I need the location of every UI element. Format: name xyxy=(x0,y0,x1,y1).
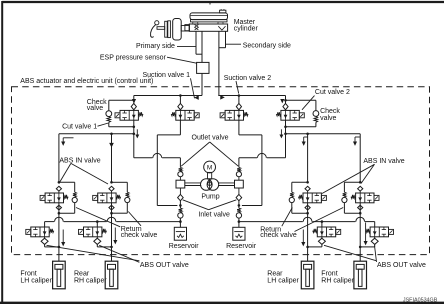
svg-text:Secondary side: Secondary side xyxy=(243,43,291,50)
svg-text:check valve: check valve xyxy=(121,232,158,239)
svg-text:Pump: Pump xyxy=(201,193,219,200)
svg-text:ABS IN valve: ABS IN valve xyxy=(363,158,404,165)
svg-text:RH caliper: RH caliper xyxy=(74,277,107,284)
svg-text:ABS actuator and electric unit: ABS actuator and electric unit (control … xyxy=(20,78,153,85)
svg-text:cylinder: cylinder xyxy=(234,26,259,33)
svg-text:Cut valve 1: Cut valve 1 xyxy=(62,124,97,131)
svg-text:valve: valve xyxy=(87,105,103,112)
svg-text:LH caliper: LH caliper xyxy=(20,277,52,284)
svg-text:Reservoir: Reservoir xyxy=(226,243,257,250)
svg-text:M: M xyxy=(207,165,212,172)
svg-text:Cut valve 2: Cut valve 2 xyxy=(315,89,350,96)
svg-text:Inlet valve: Inlet valve xyxy=(198,211,230,218)
svg-text:Outlet valve: Outlet valve xyxy=(192,135,229,142)
svg-text:Reservoir: Reservoir xyxy=(169,243,200,250)
svg-text:check valve: check valve xyxy=(260,232,297,239)
svg-text:ESP pressure sensor: ESP pressure sensor xyxy=(100,54,167,61)
svg-text:RH caliper: RH caliper xyxy=(321,277,354,284)
svg-text:ABS IN valve: ABS IN valve xyxy=(59,158,100,165)
svg-text:ABS OUT valve: ABS OUT valve xyxy=(140,262,189,269)
svg-text:LH caliper: LH caliper xyxy=(267,277,299,284)
svg-text:Primary side: Primary side xyxy=(136,43,175,50)
svg-text:valve: valve xyxy=(320,115,336,122)
svg-text:JSFIA0534GB: JSFIA0534GB xyxy=(403,298,438,304)
svg-text:ABS OUT valve: ABS OUT valve xyxy=(377,262,426,269)
svg-text:Suction valve 2: Suction valve 2 xyxy=(224,75,272,82)
